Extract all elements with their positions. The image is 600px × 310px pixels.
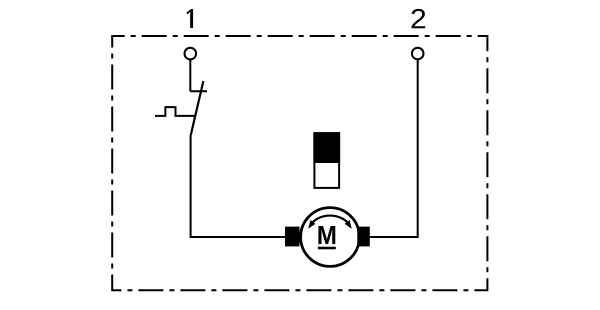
switch S1 cam actuator bbox=[155, 107, 195, 116]
position indicator black upper half bbox=[313, 132, 340, 163]
wire: terminal 2 down and across to motor right brush bbox=[370, 59, 418, 237]
motor M1 left brush bbox=[285, 227, 300, 247]
terminal 1 bbox=[185, 48, 197, 60]
motor M1 letter M bbox=[318, 226, 335, 244]
motor M1 underline of M bbox=[318, 247, 336, 250]
position indicator block outline bbox=[314, 133, 339, 188]
pin label 1 bbox=[186, 9, 193, 28]
wire: switch down and across to motor left brush bbox=[191, 135, 286, 237]
enclosure outline (dash-dot device boundary) bbox=[112, 36, 487, 290]
motor M1 right brush bbox=[357, 227, 370, 247]
motor M1 rotation arrow right head bbox=[345, 220, 352, 229]
motor M1 bidirectional rotation arrow arc bbox=[311, 216, 349, 224]
switch S1 lead from terminal 1 bbox=[189, 60, 191, 92]
switch S1 movable blade bbox=[191, 81, 204, 135]
terminal 2 bbox=[412, 48, 424, 60]
motor M1 rotation arrow left head bbox=[308, 220, 315, 229]
motor M1 body bbox=[301, 208, 360, 267]
pin label 2 bbox=[412, 9, 426, 28]
switch S1 fixed contact tick bbox=[190, 90, 207, 92]
